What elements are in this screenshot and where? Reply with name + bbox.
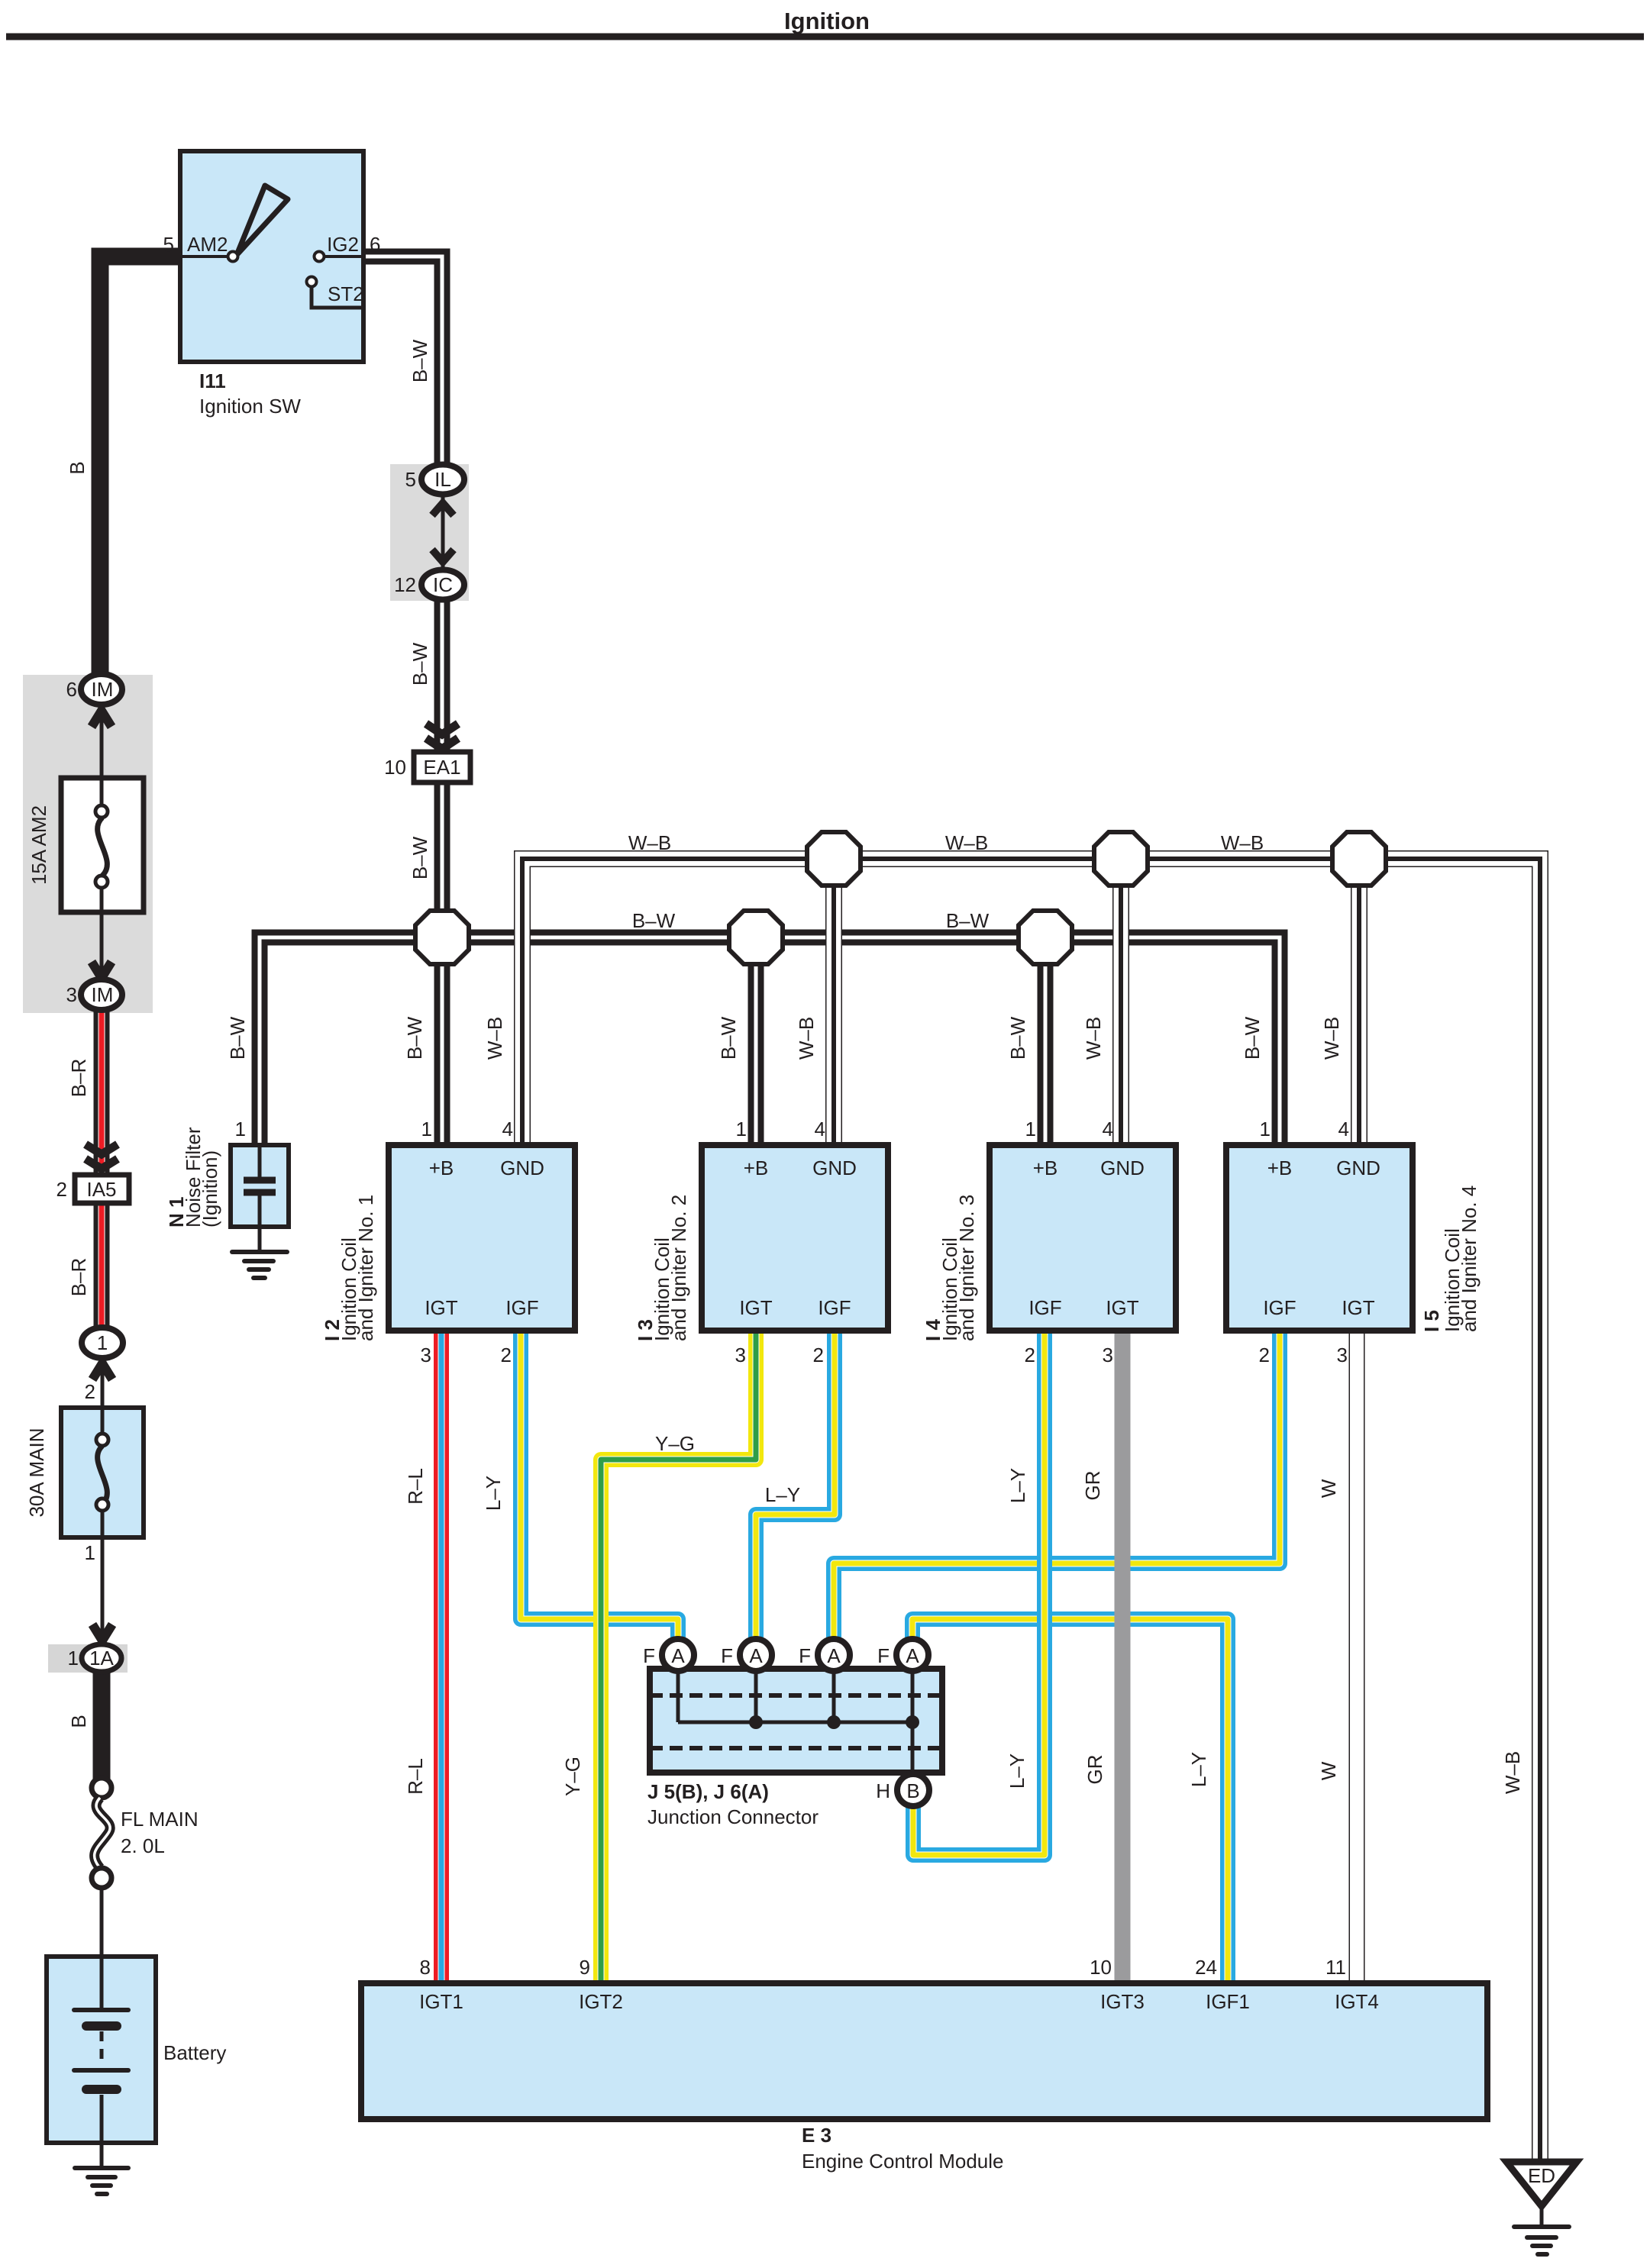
junction pin A4 [896,1639,928,1671]
svg-text:W: W [1317,1761,1340,1780]
svg-text:1: 1 [1260,1118,1271,1140]
connector 1A oval [82,1644,121,1672]
fuse 15A AM2 [61,778,144,912]
svg-text:I11: I11 [199,369,226,392]
wire R-L igniter1 IGT to ECM pin 8 [434,1331,449,1985]
svg-text:Battery: Battery [163,2041,226,2064]
wire IM6 to 15A fuse [100,703,104,779]
svg-text:A: A [749,1644,763,1667]
svg-text:B–W: B–W [1006,1016,1029,1060]
junction octagon W-B 2 [1094,832,1148,886]
svg-text:W–B: W–B [1501,1751,1524,1794]
svg-text:4: 4 [815,1118,825,1140]
wire B-R IM3 to IA5 [94,1008,110,1176]
svg-text:2: 2 [501,1344,512,1366]
svg-text:10: 10 [1090,1956,1112,1979]
svg-text:F: F [643,1644,655,1667]
wire W-B bus from igniter1 GND to ED ground [522,859,1540,2162]
gray background IL IC connector area [390,464,469,601]
svg-text:3: 3 [1103,1344,1113,1366]
svg-text:30A MAIN: 30A MAIN [25,1428,48,1517]
svg-text:2. 0L: 2. 0L [121,1834,165,1857]
svg-text:and Igniter No. 2: and Igniter No. 2 [667,1195,690,1341]
svg-text:IGT: IGT [1106,1296,1138,1319]
svg-text:4: 4 [1103,1118,1113,1140]
svg-text:B–W: B–W [408,642,431,686]
arrow double down above IA5 [86,1144,118,1154]
wire L-Y junction A4 to ECM pin 24 [912,1619,1228,1985]
ignition switch I11 box [180,151,363,362]
svg-text:5: 5 [163,233,174,256]
svg-text:B–W: B–W [632,909,676,932]
svg-text:B–W: B–W [226,1016,249,1060]
svg-text:2: 2 [813,1344,824,1366]
connector IM pin 6 oval [81,674,122,705]
ignition switch lever [237,186,288,255]
wire Y-G igniter2 IGT to ECM pin 9 [601,1331,756,1985]
svg-text:E 3: E 3 [802,2124,831,2147]
svg-text:IGF: IGF [505,1296,538,1319]
wire B-W drop to igniter1 +B [434,937,450,1147]
igniter I2 box [389,1145,575,1331]
svg-text:W–B: W–B [945,831,988,854]
svg-text:2: 2 [85,1380,95,1403]
wire B-W drop to igniter3 +B [1038,937,1054,1147]
wire noise filter to ground [258,1224,262,1252]
svg-text:IA5: IA5 [86,1178,116,1201]
noise filter N1 box [231,1145,289,1227]
svg-text:B: B [67,1715,90,1728]
wire B-W IC connector to EA1 and junction [434,598,450,924]
svg-text:(Ignition): (Ignition) [199,1150,221,1228]
svg-text:I 5: I 5 [1420,1310,1443,1332]
ignition switch ST2 contact [307,277,317,287]
svg-text:B–R: B–R [67,1059,90,1098]
svg-text:L–Y: L–Y [482,1476,505,1511]
svg-text:IGF: IGF [1263,1296,1296,1319]
svg-text:3: 3 [735,1344,746,1366]
junction dot A3 [827,1715,841,1729]
svg-text:A: A [671,1644,685,1667]
svg-text:Y–G: Y–G [561,1757,584,1796]
svg-text:10: 10 [384,756,406,779]
ED ground bars [1514,2224,1569,2229]
svg-text:+B: +B [1267,1157,1293,1179]
wire connector 1 to 30A MAIN [101,1357,105,1408]
svg-text:4: 4 [502,1118,513,1140]
ignition switch IG2 contact wire [325,255,363,258]
svg-text:1: 1 [68,1647,79,1670]
junction octagon B-W main [415,911,469,964]
ignition switch AM2 contact wire [180,255,228,258]
svg-text:GND: GND [1336,1157,1380,1179]
wire W-B drop to igniter3 GND [1112,859,1129,1147]
connector EA1 box [414,752,470,782]
svg-text:GR: GR [1083,1755,1106,1785]
connector 1 oval [82,1328,123,1358]
svg-text:B–W: B–W [408,836,431,879]
svg-text:IL: IL [434,468,451,491]
junction pin A1 [662,1639,694,1671]
igniter I3 box [702,1145,888,1331]
arrow double down above EA1 [426,724,458,734]
ignition switch AM2 contact [228,252,238,262]
svg-text:GR: GR [1081,1471,1104,1501]
svg-text:AM2: AM2 [187,233,228,256]
svg-text:GND: GND [500,1157,544,1179]
svg-text:IGF: IGF [1028,1296,1061,1319]
arrow down above IC [432,550,454,562]
svg-text:1: 1 [421,1118,432,1140]
svg-text:1A: 1A [89,1647,114,1670]
svg-text:R–L: R–L [404,1468,427,1505]
svg-text:11: 11 [1325,1956,1346,1979]
arrow up below connector 1 [92,1363,112,1379]
svg-text:B–W: B–W [408,339,431,382]
svg-text:B–W: B–W [946,909,990,932]
svg-text:B: B [66,461,89,474]
svg-text:B–R: B–R [67,1258,90,1297]
svg-text:W–B: W–B [1221,831,1264,854]
wire L-Y igniter1 IGF to junction A1 [521,1331,678,1657]
wire L-Y igniter4 IGF to junction A3 [834,1331,1280,1657]
svg-text:IGT2: IGT2 [579,1990,623,2013]
wire W igniter4 IGT to ECM pin 11 [1349,1331,1365,1985]
svg-text:1: 1 [85,1541,95,1564]
svg-text:J 5(B), J 6(A): J 5(B), J 6(A) [647,1780,769,1803]
svg-text:Engine Control Module: Engine Control Module [802,2150,1004,2173]
ignition switch ST2 wire [312,287,363,308]
svg-text:IC: IC [433,573,453,596]
svg-text:IGT4: IGT4 [1335,1990,1379,2013]
junction dot A2 [749,1715,763,1729]
arrow up below IM6 [92,711,111,727]
svg-text:and Igniter No. 4: and Igniter No. 4 [1458,1186,1480,1332]
title rule [6,34,1644,40]
svg-text:ST2: ST2 [328,282,364,305]
svg-text:B–W: B–W [1241,1016,1264,1060]
svg-text:ED: ED [1528,2164,1555,2187]
svg-text:GND: GND [812,1157,857,1179]
wire 30A MAIN to 1A [101,1537,105,1646]
junction dot A4 [906,1715,919,1729]
svg-text:EA1: EA1 [423,756,460,779]
svg-text:IG2: IG2 [327,233,359,256]
svg-text:+B: +B [744,1157,769,1179]
svg-text:9: 9 [580,1956,590,1979]
svg-text:1: 1 [1025,1118,1036,1140]
junction octagon B-W 2 [729,911,783,964]
junction connector dashed rows [650,1693,942,1698]
svg-text:2: 2 [1025,1344,1035,1366]
svg-text:6: 6 [66,678,77,701]
svg-text:W–B: W–B [1320,1017,1343,1060]
wire L-Y igniter3 IGF to junction B [913,1331,1045,1855]
svg-text:A: A [906,1644,919,1667]
wire L-Y igniter2 IGF to junction A2 [756,1331,835,1657]
noise filter capacitor [258,1147,262,1177]
svg-text:IGT3: IGT3 [1100,1990,1145,2013]
wire FL MAIN to battery [100,1886,104,1958]
svg-text:IGT: IGT [739,1296,772,1319]
svg-text:L–Y: L–Y [765,1483,800,1506]
svg-text:B: B [906,1779,919,1802]
svg-text:W–B: W–B [628,831,671,854]
ED ground stem [1540,2206,1544,2226]
igniter I5 box [1226,1145,1413,1331]
svg-text:F: F [799,1644,811,1667]
fuse 30A MAIN [61,1408,144,1537]
junction pin A3 [818,1639,850,1671]
svg-text:1: 1 [235,1118,246,1140]
svg-text:6: 6 [370,233,380,256]
svg-text:R–L: R–L [404,1758,427,1795]
junction connector box [650,1669,942,1773]
igniter I4 box [990,1145,1176,1331]
svg-text:W–B: W–B [1082,1017,1105,1060]
svg-text:Junction Connector: Junction Connector [647,1805,819,1828]
wire W-B drop to igniter2 GND [825,859,842,1147]
svg-text:B–W: B–W [717,1016,740,1060]
svg-text:IGT1: IGT1 [419,1990,463,2013]
svg-text:L–Y: L–Y [1006,1468,1029,1503]
svg-text:8: 8 [420,1956,431,1979]
svg-text:W: W [1317,1479,1340,1498]
fusible link FL MAIN [92,1778,111,1798]
ECM E3 box [361,1983,1487,2119]
svg-text:IGT: IGT [1342,1296,1374,1319]
svg-text:Y–G: Y–G [655,1432,695,1455]
svg-text:and Igniter No. 3: and Igniter No. 3 [955,1195,978,1341]
gray background 15A AM2 fuse area [23,675,153,1013]
svg-text:and Igniter No. 1: and Igniter No. 1 [354,1195,377,1341]
arrow down above 1A [92,1624,112,1641]
svg-text:+B: +B [1033,1157,1058,1179]
wire 15A fuse to IM3 [100,911,104,981]
wire battery to ground [100,2141,104,2168]
svg-text:12: 12 [394,573,416,596]
junction octagon W-B 3 [1332,832,1386,886]
junction pin A2 [740,1639,772,1671]
ground below battery [75,2166,128,2170]
junction pin B [897,1774,929,1806]
svg-text:1: 1 [736,1118,747,1140]
ignition switch IG2 contact [315,252,325,262]
wire B-W drop to igniter2 +B [748,937,764,1147]
svg-text:IM: IM [92,678,114,701]
wire W-B drop to igniter4 GND [1351,859,1367,1147]
ground below noise filter [232,1250,287,1254]
junction connector internal wires [676,1669,680,1722]
arrow up below IL [432,503,454,515]
connector IC oval [421,570,464,600]
arrow down above IM3 [92,962,111,978]
battery box [47,1957,156,2143]
svg-text:3: 3 [421,1344,431,1366]
wire B-W IG2 to IL connector [363,256,442,467]
svg-text:W–B: W–B [483,1017,506,1060]
junction octagon W-B 1 [807,832,861,886]
svg-text:Ignition: Ignition [784,8,870,34]
svg-text:W–B: W–B [795,1017,818,1060]
svg-text:F: F [877,1644,890,1667]
connector IL oval [421,465,464,495]
connector IM pin 3 oval [81,979,122,1010]
ED ground triangle [1506,2162,1577,2206]
svg-text:4: 4 [1338,1118,1349,1140]
junction octagon B-W 3 [1019,911,1072,964]
svg-text:2: 2 [57,1178,67,1201]
svg-text:A: A [827,1644,841,1667]
svg-text:IM: IM [92,983,114,1006]
svg-text:Ignition SW: Ignition SW [199,395,301,418]
svg-text:F: F [721,1644,733,1667]
connector IA5 box [75,1175,129,1203]
svg-text:3: 3 [66,983,77,1006]
svg-text:24: 24 [1195,1956,1217,1979]
svg-text:3: 3 [1337,1344,1348,1366]
wire B battery feed to ignition switch AM2 [100,256,180,674]
svg-text:2: 2 [1259,1344,1270,1366]
svg-text:IGF: IGF [818,1296,851,1319]
svg-text:15A AM2: 15A AM2 [27,805,50,885]
svg-text:B–W: B–W [403,1016,426,1060]
svg-text:5: 5 [405,468,416,491]
wire B 1A to FL MAIN [93,1672,111,1779]
wire link IL to IC [441,496,445,569]
svg-text:1: 1 [97,1331,108,1354]
wire B-W bus with drop to noise filter and igniter4 +B [260,937,1280,1147]
svg-text:+B: +B [429,1157,454,1179]
svg-text:L–Y: L–Y [1187,1752,1210,1787]
svg-text:FL MAIN: FL MAIN [121,1808,199,1831]
svg-text:H: H [876,1779,890,1802]
wire B-R IA5 to connector 1 [94,1202,110,1329]
svg-text:IGT: IGT [425,1296,457,1319]
battery internals [100,1958,104,2008]
wire GR igniter3 IGT to ECM pin 10 [1115,1331,1131,1985]
gray background 1A connector area [48,1644,128,1673]
svg-text:IGF1: IGF1 [1206,1990,1250,2013]
svg-text:GND: GND [1100,1157,1145,1179]
svg-text:L–Y: L–Y [1006,1753,1028,1789]
